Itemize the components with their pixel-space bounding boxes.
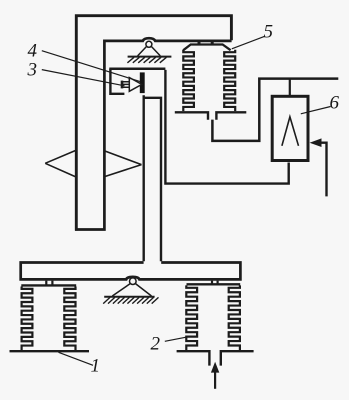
spring 1 base plate	[10, 350, 90, 352]
relay 6 box	[272, 96, 308, 160]
svg-text:6: 6	[330, 93, 340, 114]
spring 5 left coil column	[183, 50, 194, 111]
spring 2 base plate left segment with inlet wall	[177, 351, 210, 365]
spring 2 base plate right segment with inlet wall	[221, 351, 254, 365]
spring 2 left coil column	[186, 285, 197, 350]
top pivot pin circle	[146, 41, 152, 47]
inlet arrow shaft	[214, 371, 216, 389]
svg-text:5: 5	[264, 22, 274, 43]
spring 2 mount stubs	[212, 281, 218, 284]
rod (vertical bar from nozzle head down to beam)	[144, 95, 161, 261]
nozzle 3 body (tube with cap)	[121, 81, 124, 89]
top pivot triangle	[138, 46, 161, 56]
spring 1 top plate	[21, 284, 76, 286]
lever (double wedge across left column)	[45, 151, 141, 177]
spring 5 mount stubs	[199, 41, 212, 45]
top pivot ground line	[128, 56, 172, 58]
bottom pivot pin circle	[130, 278, 137, 285]
top pivot ground hatching	[127, 57, 166, 63]
leader line 1	[59, 352, 94, 365]
spring 5 right base plate with slot lip	[216, 112, 246, 120]
spring 1 right coil column	[64, 287, 75, 350]
leader line 5	[232, 36, 265, 49]
spring 2 top plate	[187, 283, 241, 285]
spring 2 right coil column	[229, 285, 240, 350]
frame inner contour: bar underside with pivot hump, inner column edge, column bottom	[75, 38, 232, 229]
pipe from spring 5 slot up-over to output line	[212, 79, 338, 141]
flapper 4 (black plate)	[140, 72, 145, 93]
svg-text:3: 3	[27, 60, 38, 81]
leader line 2	[165, 337, 188, 342]
spring 1 left coil column	[22, 287, 33, 350]
relay 6 internal valve symbol	[282, 117, 299, 146]
supply line into relay 6	[318, 143, 327, 197]
frame outer contour	[76, 16, 231, 231]
relay 6 top stub	[289, 79, 291, 97]
pipe from nozzle chamber down and right to relay 6 bottom	[165, 70, 288, 184]
bottom pivot triangle	[112, 284, 151, 297]
inlet arrowhead (up)	[211, 362, 219, 373]
leader line 6	[301, 107, 331, 114]
bottom pivot ground hatching	[103, 297, 158, 303]
spring 5 left base plate with slot lip	[175, 112, 208, 120]
spring 5 right coil column	[224, 50, 235, 111]
leader line 4	[42, 51, 140, 82]
svg-text:4: 4	[28, 41, 38, 62]
svg-text:1: 1	[91, 356, 101, 377]
spring 5 top cap	[183, 45, 230, 51]
leader line 3	[42, 70, 125, 86]
beam (long horizontal bar) with bottom pivot hump	[21, 263, 241, 280]
nozzle head top line	[109, 67, 165, 70]
svg-text:2: 2	[151, 334, 161, 355]
supply arrowhead	[310, 138, 322, 147]
nozzle bracket (open box left of flapper)	[110, 69, 124, 94]
bottom pivot ground line	[104, 296, 154, 298]
nozzle 3 arrow head (open, pointing right at flapper)	[129, 78, 142, 92]
spring 1 mount stubs	[46, 281, 52, 285]
